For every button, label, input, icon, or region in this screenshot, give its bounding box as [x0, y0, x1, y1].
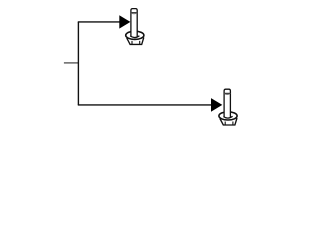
- bolt 2 (flanged hex bolt, bottom right): [219, 89, 237, 125]
- wire tick (left stub): [64, 62, 79, 64]
- bolt 1 (flanged hex bolt, top right): [126, 9, 144, 45]
- wire vertical bracket: [77, 22, 79, 105]
- arrowhead to bolt 1: [119, 15, 130, 28]
- wire bottom horizontal: [78, 104, 212, 106]
- wire top horizontal: [78, 21, 120, 23]
- arrowhead to bolt 2: [211, 98, 222, 112]
